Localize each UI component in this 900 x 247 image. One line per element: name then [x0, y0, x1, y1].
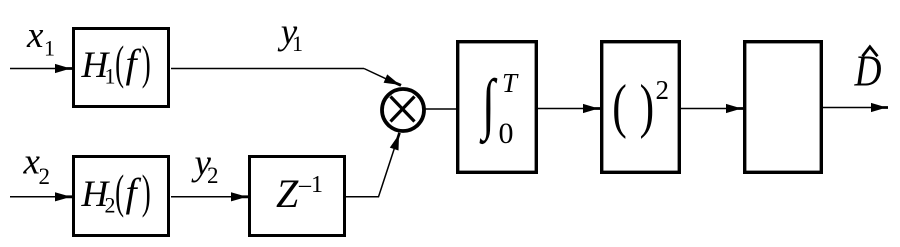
block squarer ( )^2: [602, 42, 680, 173]
wire input x2 with arrowhead: [10, 192, 72, 201]
label x2: [23, 142, 51, 189]
wire squarer to decision block with arrowhead: [681, 104, 743, 113]
multiplier (circle with X): [382, 89, 424, 131]
svg-text:(: (: [115, 37, 124, 90]
wire input x1 with arrowhead: [10, 64, 72, 73]
block H1(f): [74, 29, 169, 107]
wire integrator to squarer with arrowhead: [538, 104, 600, 113]
svg-text:2: 2: [656, 75, 670, 105]
svg-text:): ): [640, 73, 655, 139]
svg-text:–1: –1: [298, 172, 323, 198]
svg-text:2: 2: [39, 164, 51, 189]
svg-text:2: 2: [207, 163, 219, 188]
svg-text:T: T: [502, 68, 519, 98]
block Z^-1: [250, 157, 345, 236]
block integrator: [458, 42, 537, 173]
svg-text:1: 1: [292, 31, 303, 56]
svg-text:(: (: [115, 166, 124, 219]
wire multiplier to integrator: [424, 108, 456, 110]
svg-text:1: 1: [44, 36, 55, 61]
svg-text:Z: Z: [276, 171, 299, 216]
wire Z to multiplier with arrowhead: [346, 133, 401, 197]
svg-text:): ): [142, 166, 151, 219]
label D hat: [854, 47, 882, 96]
block decision (empty): [745, 42, 822, 173]
label x1: [26, 15, 55, 61]
block H2(f): [74, 157, 169, 236]
wire y1 from H1 to multiplier with arrowhead: [171, 69, 402, 87]
svg-text:2: 2: [105, 193, 116, 218]
svg-text:): ): [142, 37, 151, 90]
svg-text:0: 0: [499, 117, 514, 150]
label y2: [191, 143, 219, 188]
label y1: [277, 12, 303, 57]
svg-text:1: 1: [105, 64, 116, 89]
wire output with arrowhead: [823, 103, 888, 112]
svg-text:∫: ∫: [479, 66, 498, 145]
wire H2 to Z with arrowhead: [171, 192, 248, 201]
svg-text:x: x: [26, 15, 44, 56]
svg-text:(: (: [612, 73, 627, 139]
